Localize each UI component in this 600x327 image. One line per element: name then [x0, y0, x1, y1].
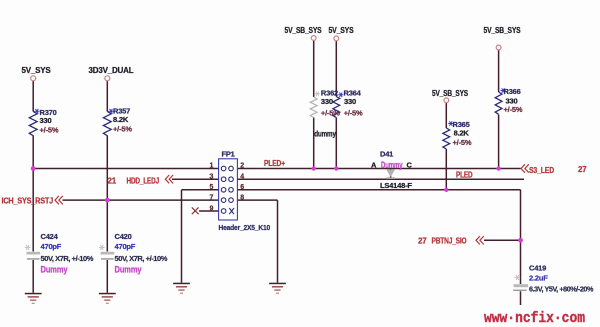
svg-text:8: 8	[240, 195, 244, 202]
svg-text:www·ncfix·com: www·ncfix·com	[484, 310, 585, 327]
svg-text:50V, X7R, +/-10%: 50V, X7R, +/-10%	[41, 254, 94, 263]
svg-text:R366: R366	[504, 87, 521, 96]
svg-text:PLED+: PLED+	[264, 159, 285, 168]
svg-text:Header_2X5_K10: Header_2X5_K10	[219, 223, 271, 232]
svg-text:2: 2	[240, 163, 244, 170]
svg-text:dummy: dummy	[314, 130, 336, 139]
svg-text:8.2K: 8.2K	[454, 129, 470, 138]
svg-text:5V_SB_SYS: 5V_SB_SYS	[285, 26, 323, 35]
svg-text:5: 5	[210, 184, 214, 191]
svg-text:4: 4	[240, 173, 244, 180]
svg-text:PBTNJ_SIO: PBTNJ_SIO	[432, 237, 467, 246]
svg-text:1: 1	[210, 163, 214, 170]
svg-text:+/-5%: +/-5%	[344, 109, 363, 118]
svg-text:9: 9	[210, 205, 214, 212]
svg-text:3D3V_DUAL: 3D3V_DUAL	[89, 66, 134, 75]
svg-text:3: 3	[210, 173, 214, 180]
svg-text:C: C	[407, 161, 413, 170]
svg-text:+/-5%: +/-5%	[113, 125, 132, 134]
svg-text:470pF: 470pF	[41, 242, 62, 251]
svg-text:Dummy: Dummy	[41, 265, 69, 276]
svg-text:470pF: 470pF	[115, 242, 136, 251]
svg-text:330: 330	[40, 116, 52, 125]
svg-text:6: 6	[240, 184, 244, 191]
svg-text:C419: C419	[529, 264, 546, 273]
svg-text:FP1: FP1	[222, 150, 235, 159]
svg-text:C420: C420	[115, 232, 132, 241]
svg-text:ICH_SYS_RSTJ: ICH_SYS_RSTJ	[2, 197, 54, 206]
svg-text:7: 7	[210, 195, 214, 202]
svg-text:5V_SYS: 5V_SYS	[22, 66, 52, 75]
svg-text:PLED: PLED	[456, 171, 473, 180]
svg-text:C424: C424	[41, 232, 59, 241]
svg-text:S3_LED: S3_LED	[529, 166, 554, 175]
svg-text:+/-5%: +/-5%	[504, 105, 523, 114]
svg-text:5V_SB_SYS: 5V_SB_SYS	[432, 89, 469, 98]
svg-text:Dummy: Dummy	[115, 265, 143, 276]
svg-text:50V, X7R, +/-10%: 50V, X7R, +/-10%	[115, 254, 168, 263]
svg-text:LS4148-F: LS4148-F	[380, 181, 412, 190]
svg-text:D41: D41	[380, 150, 393, 159]
svg-text:5V_SB_SYS: 5V_SB_SYS	[484, 26, 522, 35]
svg-text:+/-5%: +/-5%	[453, 138, 472, 147]
svg-text:330: 330	[344, 97, 356, 106]
svg-text:Dummy: Dummy	[381, 160, 403, 171]
svg-text:5V_SYS: 5V_SYS	[329, 26, 355, 35]
svg-text:27: 27	[578, 165, 587, 174]
svg-text:+/-5%: +/-5%	[40, 126, 59, 135]
svg-text:A: A	[371, 161, 377, 170]
svg-text:HDD_LEDJ: HDD_LEDJ	[127, 177, 160, 186]
svg-text:6.3V, Y5V, +80%/-20%: 6.3V, Y5V, +80%/-20%	[529, 285, 594, 294]
svg-text:27: 27	[418, 237, 427, 246]
svg-text:+/-5%: +/-5%	[321, 109, 340, 118]
svg-text:21: 21	[108, 177, 117, 186]
svg-text:8.2K: 8.2K	[113, 115, 129, 124]
svg-text:330: 330	[321, 97, 333, 106]
svg-text:2.2uF: 2.2uF	[529, 274, 548, 283]
